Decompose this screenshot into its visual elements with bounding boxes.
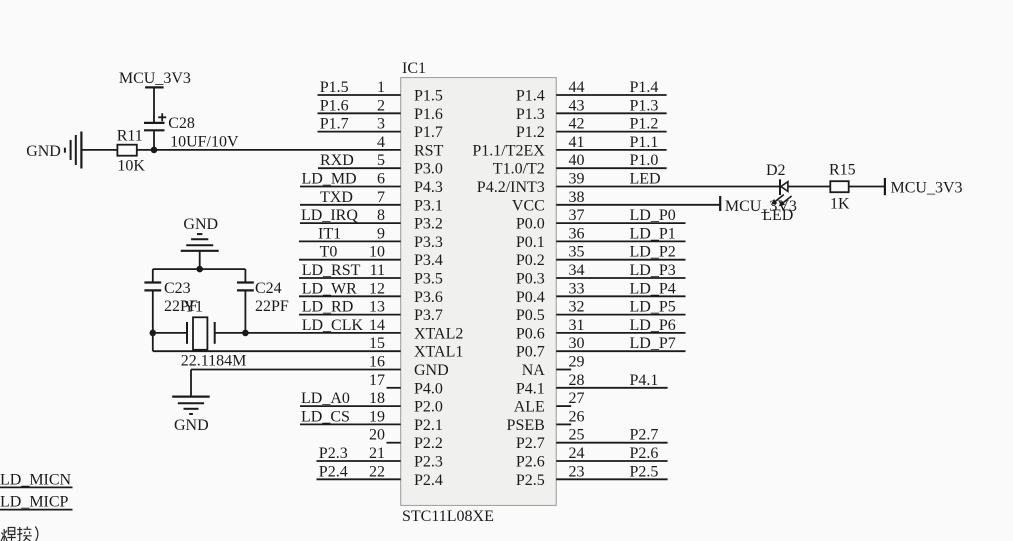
svg-text:LD_P0: LD_P0 bbox=[630, 207, 676, 224]
wire pin 36 right LD_P1 bbox=[556, 240, 685, 242]
svg-text:P3.5: P3.5 bbox=[414, 271, 443, 288]
capacitor C28 plates (polarized) bbox=[144, 123, 165, 150]
svg-text:LD_P7: LD_P7 bbox=[630, 335, 676, 352]
svg-text:P2.1: P2.1 bbox=[414, 417, 443, 434]
wire pin 16 GND from ground branch bbox=[191, 369, 401, 371]
svg-text:22: 22 bbox=[369, 463, 385, 480]
svg-text:LD_RD: LD_RD bbox=[302, 299, 354, 316]
svg-text:P2.3: P2.3 bbox=[414, 454, 443, 471]
svg-text:P1.7: P1.7 bbox=[414, 124, 443, 141]
svg-text:27: 27 bbox=[569, 390, 585, 407]
svg-text:C28: C28 bbox=[168, 115, 195, 132]
svg-text:29: 29 bbox=[569, 354, 585, 371]
svg-text:P0.6: P0.6 bbox=[516, 325, 545, 342]
svg-text:P1.3: P1.3 bbox=[516, 106, 545, 123]
svg-text:VCC: VCC bbox=[512, 197, 545, 214]
svg-text:19: 19 bbox=[369, 408, 385, 425]
svg-text:P1.2: P1.2 bbox=[630, 116, 659, 133]
wire pin 25 right P2.7 bbox=[556, 442, 667, 444]
svg-text:P3.3: P3.3 bbox=[414, 234, 443, 251]
wire pin 3 left P1.7 bbox=[318, 131, 401, 133]
svg-text:R11: R11 bbox=[117, 128, 143, 145]
capacitor C24 plates bbox=[237, 283, 254, 291]
svg-text:22PF: 22PF bbox=[255, 298, 289, 315]
svg-text:P2.6: P2.6 bbox=[516, 454, 545, 471]
svg-text:P1.6: P1.6 bbox=[414, 106, 443, 123]
svg-text:LD_P5: LD_P5 bbox=[630, 299, 676, 316]
svg-text:ALE: ALE bbox=[514, 399, 545, 416]
wire pin 24 right P2.6 bbox=[556, 460, 667, 462]
svg-text:P4.1: P4.1 bbox=[630, 372, 659, 389]
svg-text:GND: GND bbox=[26, 143, 61, 160]
svg-text:C24: C24 bbox=[255, 280, 282, 297]
wire pin 2 left P1.6 bbox=[318, 112, 401, 114]
svg-text:10: 10 bbox=[369, 244, 385, 261]
svg-text:13: 13 bbox=[369, 299, 385, 316]
wire D2 to R15 bbox=[788, 186, 830, 188]
svg-text:18: 18 bbox=[369, 390, 385, 407]
wire pin 18 left LD_A0 bbox=[300, 405, 401, 407]
crystal Y1 left electrode bbox=[186, 322, 188, 344]
svg-text:GND: GND bbox=[174, 417, 209, 434]
svg-text:14: 14 bbox=[369, 317, 385, 334]
svg-text:11: 11 bbox=[370, 262, 385, 279]
svg-text:P1.5: P1.5 bbox=[414, 88, 443, 105]
svg-text:PSEB: PSEB bbox=[507, 417, 545, 434]
wire pin 9 left IT1 bbox=[299, 240, 401, 242]
svg-text:P3.0: P3.0 bbox=[414, 161, 443, 178]
svg-text:LD_A0: LD_A0 bbox=[301, 390, 350, 407]
svg-text:P3.2: P3.2 bbox=[414, 216, 443, 233]
svg-text:15: 15 bbox=[369, 335, 385, 352]
svg-text:22.1184M: 22.1184M bbox=[181, 353, 247, 370]
capacitor C23 plates bbox=[144, 283, 161, 291]
svg-text:NA: NA bbox=[522, 362, 546, 379]
svg-text:XTAL1: XTAL1 bbox=[414, 344, 463, 361]
svg-text:LD_RST: LD_RST bbox=[302, 262, 361, 279]
svg-text:P1.4: P1.4 bbox=[516, 88, 545, 105]
svg-text:P0.1: P0.1 bbox=[516, 234, 545, 251]
wire C24 branch lower to XTAL2 wire bbox=[244, 291, 246, 333]
svg-text:7: 7 bbox=[377, 189, 385, 206]
wire pin 6 left LD_MD bbox=[300, 186, 401, 188]
wire pin 30 right LD_P7 bbox=[556, 350, 685, 352]
junction dot top rail / GND stem bbox=[196, 266, 203, 273]
svg-text:24: 24 bbox=[569, 445, 585, 462]
svg-text:21: 21 bbox=[369, 445, 385, 462]
svg-text:P3.6: P3.6 bbox=[414, 289, 443, 306]
svg-text:LD_MICN: LD_MICN bbox=[0, 471, 72, 488]
svg-text:LD_MD: LD_MD bbox=[302, 171, 357, 188]
svg-text:R15: R15 bbox=[829, 162, 856, 179]
svg-text:P1.4: P1.4 bbox=[630, 79, 659, 96]
svg-text:1: 1 bbox=[377, 79, 385, 96]
svg-text:P1.0: P1.0 bbox=[630, 152, 659, 169]
svg-text:P2.4: P2.4 bbox=[319, 463, 348, 480]
resistor R11 body bbox=[117, 145, 136, 156]
wire pin 33 right LD_P4 bbox=[556, 295, 685, 297]
svg-text:LD_MICP: LD_MICP bbox=[0, 494, 69, 511]
svg-text:C23: C23 bbox=[164, 280, 191, 297]
svg-text:Y1: Y1 bbox=[184, 299, 204, 316]
wire pin 44 right P1.4 bbox=[556, 94, 666, 96]
diode D2 triangle bbox=[781, 182, 788, 192]
wire pin 31 right LD_P6 bbox=[556, 332, 685, 334]
svg-text:P1.6: P1.6 bbox=[320, 97, 349, 114]
svg-text:LD_IRQ: LD_IRQ bbox=[301, 207, 358, 224]
ground symbol GND (left, rotated earth) bbox=[65, 132, 82, 169]
svg-text:40: 40 bbox=[569, 152, 585, 169]
svg-text:25: 25 bbox=[569, 427, 585, 444]
wire LD_MICP bbox=[0, 509, 73, 511]
svg-text:P0.5: P0.5 bbox=[516, 307, 545, 324]
svg-text:20: 20 bbox=[369, 427, 385, 444]
svg-text:43: 43 bbox=[569, 97, 585, 114]
svg-text:30: 30 bbox=[569, 335, 585, 352]
wire pin 32 right LD_P5 bbox=[556, 314, 685, 316]
svg-text:P4.1: P4.1 bbox=[516, 380, 545, 397]
svg-text:STC11L08XE: STC11L08XE bbox=[402, 508, 494, 525]
wire pin 10 left T0 bbox=[299, 259, 401, 261]
wire pin 22 left P2.4 bbox=[317, 478, 401, 480]
wire pin 41 right P1.1 bbox=[556, 149, 666, 151]
svg-text:P0.4: P0.4 bbox=[516, 289, 545, 306]
crystal Y1 right electrode bbox=[214, 322, 216, 344]
svg-text:RXD: RXD bbox=[320, 152, 354, 169]
svg-text:RST: RST bbox=[414, 142, 444, 159]
diode D2 LED arrow 1 bbox=[771, 195, 784, 205]
svg-text:3: 3 bbox=[377, 116, 385, 133]
svg-text:P0.3: P0.3 bbox=[516, 271, 545, 288]
wire pin 7 left TXD bbox=[300, 204, 401, 206]
wire pin 21 left P2.3 bbox=[317, 460, 401, 462]
svg-text:P1.7: P1.7 bbox=[320, 116, 349, 133]
wire pin 26 right stub bbox=[556, 423, 571, 425]
svg-text:9: 9 bbox=[377, 225, 385, 242]
wire R15 to MCU_3V3 terminal bbox=[849, 186, 885, 188]
svg-text:33: 33 bbox=[569, 280, 585, 297]
svg-text:P1.2: P1.2 bbox=[516, 124, 545, 141]
power symbol MCU_3V3 (top left) bbox=[145, 87, 164, 122]
wire crystal top rail bbox=[153, 268, 246, 270]
svg-text:P1.1: P1.1 bbox=[630, 134, 659, 151]
svg-text:6: 6 bbox=[377, 171, 385, 188]
svg-text:P2.5: P2.5 bbox=[630, 463, 659, 480]
wire pin 15 XTAL1 from crystal branch bbox=[153, 350, 401, 352]
svg-text:P2.7: P2.7 bbox=[630, 427, 659, 444]
svg-text:P3.7: P3.7 bbox=[414, 307, 443, 324]
svg-text:8: 8 bbox=[377, 207, 385, 224]
svg-text:32: 32 bbox=[569, 299, 585, 316]
junction dot C24 branch / XTAL2 wire bbox=[242, 330, 249, 337]
wire pin 17 left stub bbox=[387, 387, 401, 389]
wire pin 37 right LD_P0 bbox=[556, 222, 685, 224]
svg-text:17: 17 bbox=[369, 372, 385, 389]
terminal bar MCU_3V3 (right) bbox=[884, 178, 886, 195]
wire pin 5 left RXD bbox=[318, 167, 401, 169]
svg-text:LD_WR: LD_WR bbox=[302, 280, 357, 297]
wire pin 27 right stub bbox=[556, 405, 571, 407]
svg-text:XTAL2: XTAL2 bbox=[414, 325, 463, 342]
svg-text:D2: D2 bbox=[766, 162, 786, 179]
svg-text:P2.6: P2.6 bbox=[630, 445, 659, 462]
wire pin 29 right stub bbox=[556, 369, 571, 371]
svg-text:39: 39 bbox=[569, 171, 585, 188]
svg-text:LED: LED bbox=[630, 171, 661, 188]
wire R11 to RST pin 4 bbox=[137, 149, 401, 151]
svg-text:P0.0: P0.0 bbox=[516, 216, 545, 233]
svg-text:P1.1/T2EX: P1.1/T2EX bbox=[472, 142, 545, 159]
junction dot RST / C28 bbox=[151, 147, 158, 154]
svg-text:28: 28 bbox=[569, 372, 585, 389]
ground symbol GND (below crystal) bbox=[172, 397, 210, 414]
wire pin 34 right LD_P3 bbox=[556, 277, 685, 279]
crystal Y1 body bbox=[193, 317, 207, 350]
svg-text:LD_P4: LD_P4 bbox=[630, 280, 676, 297]
wire pin 1 left P1.5 bbox=[318, 94, 401, 96]
svg-text:GND: GND bbox=[414, 362, 449, 379]
svg-text:4: 4 bbox=[377, 134, 385, 151]
annotation text (Chinese, cut off) bbox=[1, 527, 38, 541]
wire pin 20 left stub bbox=[387, 442, 401, 444]
wire pin 28 right P4.1 bbox=[556, 387, 667, 389]
diode D2 LED arrow 2 bbox=[779, 196, 792, 206]
IC U1 body (STC11L08XE) bbox=[401, 78, 557, 506]
svg-text:LD_P3: LD_P3 bbox=[630, 262, 676, 279]
svg-text:P2.7: P2.7 bbox=[516, 435, 545, 452]
svg-text:2: 2 bbox=[377, 97, 385, 114]
svg-text:1K: 1K bbox=[830, 196, 850, 213]
wire C24 branch upper bbox=[244, 269, 246, 281]
svg-text:41: 41 bbox=[569, 134, 585, 151]
svg-text:44: 44 bbox=[569, 79, 585, 96]
svg-text:37: 37 bbox=[569, 207, 585, 224]
wire pin 40 right P1.0 bbox=[556, 167, 666, 169]
wire pin 11 left LD_RST bbox=[299, 277, 401, 279]
svg-text:5: 5 bbox=[377, 152, 385, 169]
junction dot C23 branch / XTAL2 wire bbox=[150, 330, 157, 337]
wire XTAL2 net: crystal left segment (pin 14) bbox=[153, 332, 187, 334]
svg-text:P4.2/INT3: P4.2/INT3 bbox=[477, 179, 545, 196]
svg-text:36: 36 bbox=[569, 225, 585, 242]
terminal bar MCU_3V3 (pin 38) bbox=[719, 196, 721, 211]
wire XTAL2 net: crystal right segment to pin 14 bbox=[215, 332, 401, 334]
svg-text:23: 23 bbox=[569, 463, 585, 480]
svg-text:LED: LED bbox=[762, 207, 793, 224]
svg-text:TXD: TXD bbox=[320, 189, 353, 206]
svg-text:P4.0: P4.0 bbox=[414, 380, 443, 397]
svg-text:LD_P2: LD_P2 bbox=[630, 244, 676, 261]
svg-text:P4.3: P4.3 bbox=[414, 179, 443, 196]
svg-text:P2.2: P2.2 bbox=[414, 435, 443, 452]
svg-text:P1.3: P1.3 bbox=[630, 97, 659, 114]
svg-text:10UF/10V: 10UF/10V bbox=[170, 134, 239, 151]
svg-text:P2.4: P2.4 bbox=[414, 472, 443, 489]
wire pin 43 right P1.3 bbox=[556, 112, 666, 114]
svg-text:MCU_3V3: MCU_3V3 bbox=[891, 180, 963, 197]
svg-text:MCU_3V3: MCU_3V3 bbox=[119, 70, 191, 87]
svg-text:34: 34 bbox=[569, 262, 585, 279]
svg-text:P3.4: P3.4 bbox=[414, 252, 443, 269]
svg-text:12: 12 bbox=[369, 280, 385, 297]
wire C23 branch lower to XTAL1 row bbox=[152, 291, 154, 351]
wire pin 38 right stub bbox=[556, 204, 719, 206]
svg-text:P0.7: P0.7 bbox=[516, 344, 545, 361]
wire pin 8 left LD_IRQ bbox=[300, 222, 401, 224]
svg-text:LD_P1: LD_P1 bbox=[630, 225, 676, 242]
wire C23 branch upper bbox=[152, 269, 154, 281]
svg-text:P1.5: P1.5 bbox=[320, 79, 349, 96]
svg-text:P0.2: P0.2 bbox=[516, 252, 545, 269]
wire GND branch vertical (pin 16) bbox=[190, 370, 192, 397]
svg-text:P2.3: P2.3 bbox=[319, 445, 348, 462]
wire LD_MICN bbox=[0, 486, 73, 488]
svg-text:T0: T0 bbox=[320, 244, 338, 261]
wire GND to R11 bbox=[82, 149, 117, 151]
svg-text:26: 26 bbox=[569, 408, 585, 425]
wire pin 23 right P2.5 bbox=[556, 478, 667, 480]
svg-text:IC1: IC1 bbox=[402, 60, 426, 77]
wire pin 12 left LD_WR bbox=[299, 295, 401, 297]
svg-text:10K: 10K bbox=[117, 158, 145, 175]
wire pin 13 left LD_RD bbox=[299, 314, 401, 316]
svg-text:T1.0/T2: T1.0/T2 bbox=[493, 161, 545, 178]
svg-text:P2.0: P2.0 bbox=[414, 399, 443, 416]
svg-text:LD_CS: LD_CS bbox=[301, 408, 350, 425]
wire pin 42 right P1.2 bbox=[556, 131, 666, 133]
svg-text:GND: GND bbox=[183, 216, 218, 233]
wire pin 35 right LD_P2 bbox=[556, 259, 685, 261]
C28 plus sign bbox=[158, 113, 166, 121]
svg-text:38: 38 bbox=[569, 189, 585, 206]
svg-text:P3.1: P3.1 bbox=[414, 197, 443, 214]
ground symbol GND (above crystal, inverted earth) bbox=[181, 234, 219, 269]
wire pin 19 left LD_CS bbox=[300, 423, 401, 425]
svg-text:35: 35 bbox=[569, 244, 585, 261]
resistor R15 body bbox=[830, 181, 848, 192]
svg-text:31: 31 bbox=[569, 317, 585, 334]
svg-text:LD_CLK: LD_CLK bbox=[302, 317, 364, 334]
wire pin 39 right LED bbox=[556, 186, 779, 188]
svg-text:16: 16 bbox=[369, 354, 385, 371]
svg-text:P2.5: P2.5 bbox=[516, 472, 545, 489]
diode D2 cathode bar bbox=[779, 179, 781, 195]
svg-text:LD_P6: LD_P6 bbox=[630, 317, 676, 334]
svg-text:42: 42 bbox=[569, 116, 585, 133]
svg-text:IT1: IT1 bbox=[318, 225, 341, 242]
